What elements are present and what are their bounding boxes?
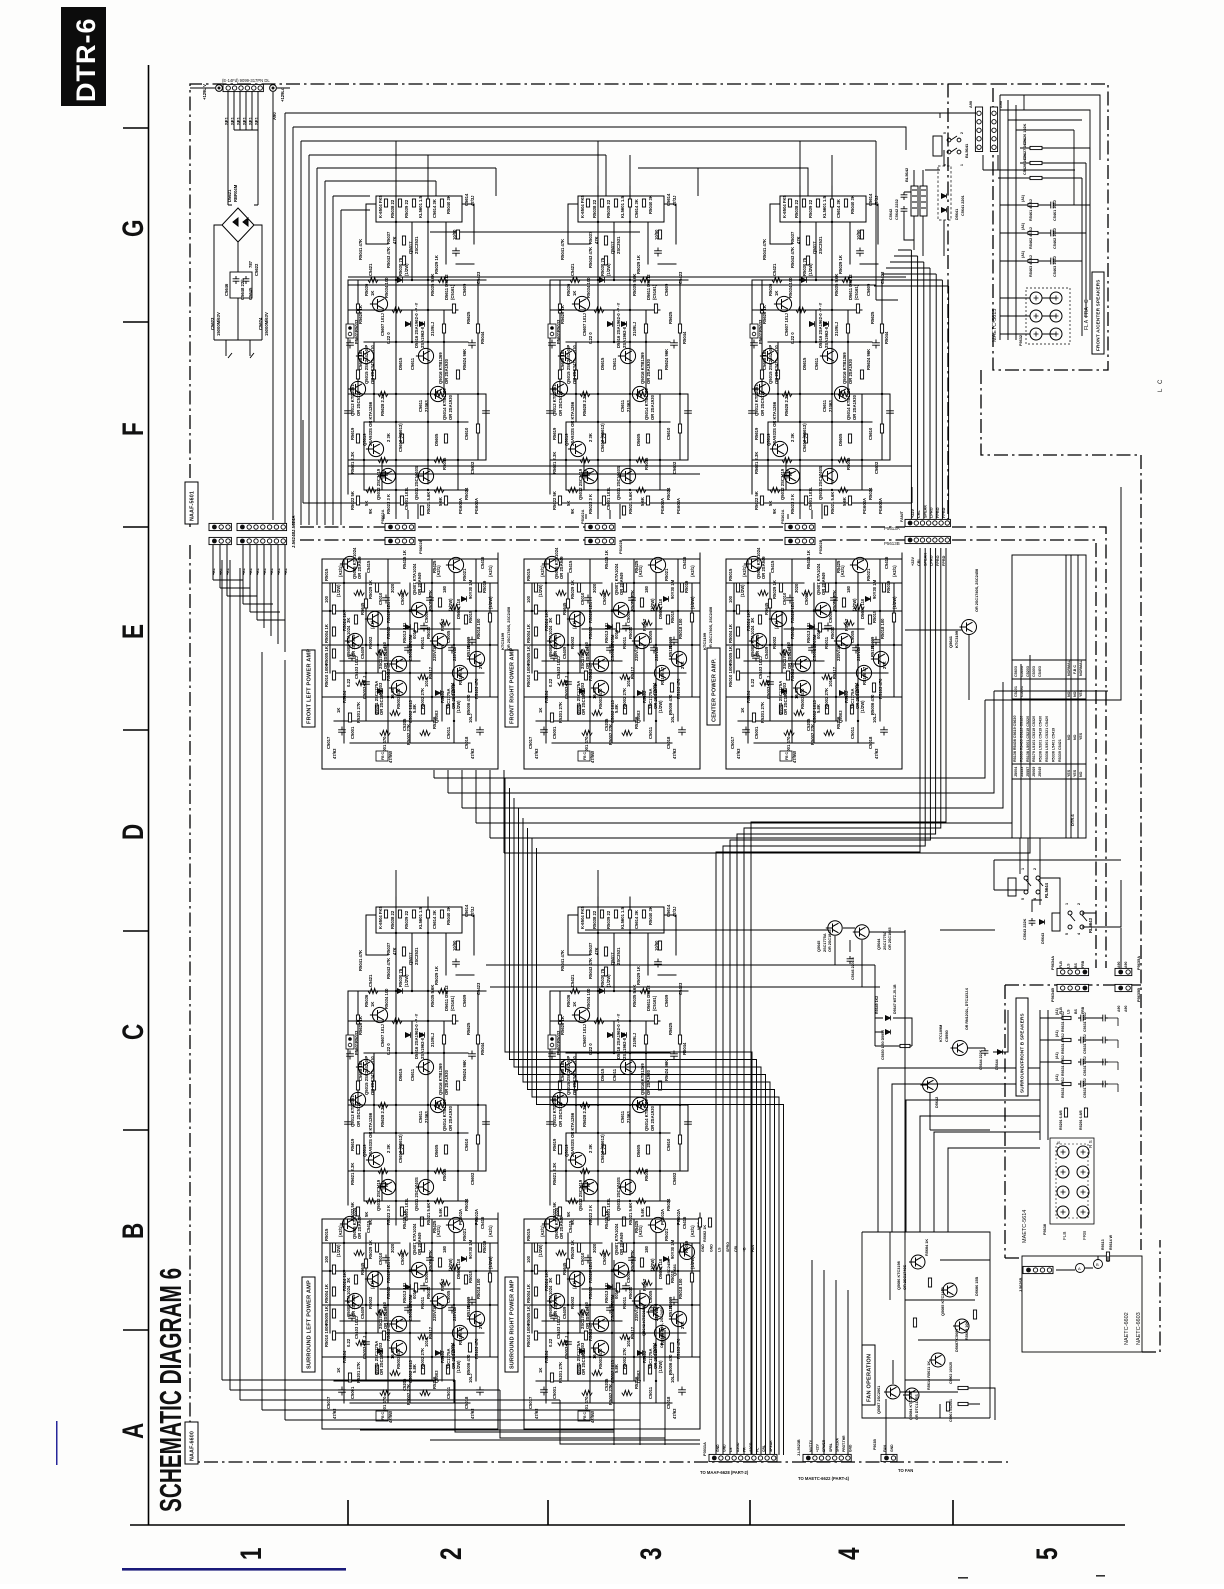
svg-text:OR 2SC1740S: OR 2SC1740S [903, 1264, 907, 1290]
top horizontal bus wires [285, 113, 940, 525]
svg-text:FPRD: FPRD [942, 507, 946, 518]
ruler tick marks [123, 128, 148, 1330]
terminal post B10 [1057, 1166, 1069, 1178]
svg-text:C5648 22/L: C5648 22/L [240, 278, 245, 300]
relay BL5641 [933, 136, 961, 156]
connector P5302B [785, 537, 815, 544]
connector P5102B [585, 537, 615, 544]
svg-text:A90: A90 [272, 112, 277, 120]
svg-text:+129Ld: +129Ld [280, 87, 285, 102]
svg-text:SE1: SE1 [224, 116, 229, 125]
board NAAF-5601 outline [190, 84, 993, 527]
svg-text:R5039 R5439 C5119 C5120: R5039 R5439 C5119 C5120 [1019, 716, 1023, 762]
terminal post B20 [1057, 1186, 1069, 1198]
svg-text:C5103: C5103 [1020, 666, 1024, 677]
fuse C5427 [1030, 161, 1042, 164]
RC network R5461 [1028, 203, 1038, 206]
svg-text:R5684 1K: R5684 1K [925, 1239, 929, 1256]
svg-text:+22V: +22V [911, 509, 915, 518]
svg-text:Q5644: Q5644 [877, 938, 881, 950]
cap C5643 [1029, 918, 1036, 926]
svg-text:(A1): (A1) [1021, 250, 1025, 258]
board NAAF-6600 left/bottom outline [190, 545, 1008, 1462]
svg-text:TO FAN: TO FAN [898, 1468, 913, 1473]
board MAETC-5615 outline [993, 84, 1108, 370]
svg-text:A: A [116, 1423, 150, 1439]
terminal post B30 [1057, 1206, 1069, 1218]
svg-text:2SC1775A: 2SC1775A [883, 931, 887, 950]
terminal post B11 [1077, 1166, 1089, 1178]
svg-text:B: B [116, 1223, 150, 1239]
svg-text:C5650 1/50 D5950: C5650 1/50 D5950 [881, 1030, 885, 1060]
svg-text:B: B [1096, 1262, 1099, 1267]
center bus wires [716, 548, 946, 1455]
resistors R5291 R5292 [1064, 1108, 1067, 1117]
svg-text:R5682 1K: R5682 1K [703, 1225, 707, 1242]
svg-text:P5302B: P5302B [818, 539, 823, 554]
svg-text:2: 2 [434, 1547, 468, 1560]
svg-text:LS: LS [1066, 1009, 1070, 1014]
transistor D5950 group [951, 1041, 968, 1056]
label NAAF-5601 [185, 482, 198, 524]
bottom connector J.L5623B [803, 1454, 851, 1461]
label NAAF-6600 [185, 1422, 198, 1464]
connector P5613B [905, 536, 950, 543]
svg-text:OR 2SC1740S, 2SC2458: OR 2SC1740S, 2SC2458 [709, 607, 713, 650]
svg-text:SPEAK: SPEAK [923, 505, 927, 518]
svg-text:FRONT RIGHT POWER AMP: FRONT RIGHT POWER AMP [509, 648, 515, 724]
bottom grid ruler line [130, 1524, 1125, 1526]
svg-text:R5631 47/3J: R5631 47/3J [1061, 1011, 1065, 1032]
svg-text:R5614 W: R5614 W [1109, 1234, 1113, 1250]
board MAETC-5614 outline [1005, 985, 1141, 1258]
svg-text:G: G [116, 219, 150, 237]
wire stage feed surround [396, 870, 880, 987]
terminal post 1,1 [1050, 310, 1062, 322]
svg-text:D5644: D5644 [995, 1059, 999, 1070]
svg-text:P563B: P563B [873, 1439, 877, 1450]
svg-text:SPEAK: SPEAK [769, 1440, 773, 1452]
svg-text:R5461 47/3J: R5461 47/3J [1029, 199, 1033, 221]
protection circuit Q5681 [678, 1245, 695, 1260]
svg-text:J5069: J5069 [1032, 767, 1036, 777]
svg-text:J5004: J5004 [1014, 766, 1018, 777]
svg-text:OR 2SC1740S, 2SC2458: OR 2SC1740S, 2SC2458 [507, 607, 511, 650]
svg-text:NAETC-6602: NAETC-6602 [1124, 1312, 1130, 1345]
svg-text:C5641 2201: C5641 2201 [961, 195, 965, 216]
svg-text:OR 2SC1740S, 2SC2458: OR 2SC1740S, 2SC2458 [660, 1307, 664, 1348]
svg-text:Q5687 2SC2061: Q5687 2SC2061 [877, 1386, 881, 1414]
svg-text:C5631 103J: C5631 103J [1083, 1012, 1087, 1032]
svg-text:(E-14Fd) 9099-317PN DL: (E-14Fd) 9099-317PN DL [222, 78, 270, 83]
connector P5615B [990, 107, 997, 152]
svg-text:C5646: C5646 [224, 283, 229, 296]
svg-text:NAAF-6600: NAAF-6600 [189, 1431, 195, 1461]
board boundary row lower [300, 540, 1096, 968]
svg-text:Q5686 KTC3198: Q5686 KTC3198 [897, 1261, 901, 1290]
svg-text:+B1: +B1 [242, 568, 246, 575]
svg-text:+22V: +22V [816, 1443, 820, 1452]
svg-text:+22V: +22V [911, 557, 915, 566]
fan transistor Q5687 [884, 1385, 900, 1399]
RC network R5463 [1028, 259, 1038, 262]
svg-text:PROT.THR: PROT.THR [842, 1435, 846, 1452]
svg-text:NORMAL: NORMAL [1079, 659, 1083, 676]
label SURROUND RIGHT POWER AMP [505, 1277, 518, 1372]
fuse C5426 [1030, 146, 1042, 149]
svg-text:2SC1775A: 2SC1775A [823, 933, 827, 952]
svg-text:NORMAL: NORMAL [1067, 659, 1071, 676]
svg-text:FRONT LEFT POWER AMP: FRONT LEFT POWER AMP [307, 649, 313, 724]
RC network R5632 [1062, 1038, 1071, 1041]
svg-text:SE1: SE1 [248, 116, 253, 125]
svg-text:SPRO: SPRO [726, 1242, 730, 1252]
svg-text:C5462 103J: C5462 103J [1053, 228, 1057, 249]
svg-text:A90: A90 [1124, 962, 1128, 968]
svg-text:+129L V: +129L V [202, 84, 207, 100]
board boundary row upper [300, 527, 1106, 968]
stray print mark 1 [958, 1577, 968, 1579]
svg-text:OR 2SC1845: OR 2SC1845 [828, 929, 832, 952]
svg-text:LS: LS [1066, 963, 1070, 968]
speaker terminals FRONT A / CENTER [1026, 288, 1070, 344]
svg-text:+B1: +B1 [270, 568, 274, 575]
connector P5302A [785, 523, 815, 530]
svg-text:+B: +B [743, 1247, 747, 1252]
svg-text:(A1): (A1) [1055, 1074, 1059, 1081]
svg-text:NAAF-5601: NAAF-5601 [189, 491, 195, 521]
svg-text:J.5624B: J.5624B [291, 531, 296, 548]
svg-text:KTC3199: KTC3199 [500, 632, 505, 650]
wires Q5645 area [585, 928, 905, 987]
svg-text:YES: YES [1067, 769, 1071, 777]
middle distribution staircase [505, 778, 784, 1455]
svg-text:NO: NO [1067, 734, 1071, 740]
svg-text:Q5645: Q5645 [817, 941, 821, 952]
blue registration line bottom left [122, 1568, 346, 1571]
svg-text:5: 5 [943, 132, 947, 134]
smoothing caps C5646 C5648 [230, 272, 252, 298]
connector P5102A [585, 523, 615, 530]
svg-text:(A1): (A1) [1055, 1052, 1059, 1059]
svg-text:2: 2 [960, 132, 964, 134]
svg-text:OR DTC114ES: OR DTC114ES [915, 1394, 919, 1420]
terminal post 1,0 [1030, 310, 1042, 322]
front right output stage [547, 186, 692, 515]
svg-text:C5203: C5203 [1026, 666, 1030, 677]
svg-text:FPRO: FPRO [936, 555, 940, 566]
svg-text:4: 4 [1077, 933, 1081, 935]
wires top right [940, 95, 1100, 178]
svg-text:LS: LS [718, 1247, 722, 1252]
wire stage feed [788, 141, 832, 519]
svg-text:C5603: C5603 [1014, 666, 1018, 677]
svg-text:GND: GND [890, 1444, 894, 1452]
surround left power amp circuit [322, 1207, 498, 1429]
fan transistor at 938,1360 [929, 1353, 945, 1367]
label FRONT A/CENTER SPEAKERS [1092, 272, 1104, 354]
svg-text:NAETC-6603: NAETC-6603 [1136, 1312, 1142, 1345]
svg-text:SE1: SE1 [254, 116, 259, 125]
bottom area tie lines [320, 930, 995, 1445]
stray print mark 2 [1096, 1575, 1105, 1577]
svg-text:A2GD: A2GD [736, 1442, 740, 1452]
wires diode cluster [875, 965, 912, 1046]
svg-text:CRL: CRL [734, 1244, 738, 1252]
output feed staircase [434, 487, 1121, 853]
svg-text:R5338 L5301 C5321 C5420: R5338 L5301 C5321 C5420 [1045, 716, 1049, 762]
svg-text:SURROUND RIGHT POWER AMP: SURROUND RIGHT POWER AMP [509, 1279, 515, 1369]
svg-text:R5339 C5421: R5339 C5421 [1058, 739, 1062, 762]
svg-text:J5049: J5049 [1038, 767, 1042, 777]
svg-text:1: 1 [1065, 903, 1069, 905]
svg-text:SE1: SE1 [236, 116, 241, 125]
svg-text:CRL: CRL [917, 558, 921, 566]
svg-text:D5642: D5642 [935, 1097, 939, 1108]
second wire bundle [812, 1260, 848, 1455]
fan transistor at 918,1262 [909, 1255, 925, 1269]
terminal post B31 [1077, 1206, 1089, 1218]
svg-text:CRL: CRL [917, 510, 921, 518]
svg-text:Q5685 KTC3199: Q5685 KTC3199 [941, 1287, 945, 1316]
block NAETC-6602/6603 [1022, 1256, 1142, 1352]
svg-text:GND: GND [716, 1444, 720, 1452]
svg-text:3: 3 [634, 1547, 668, 1560]
svg-text:J.5624A: J.5624A [291, 515, 296, 532]
fan transistor at 962,1326 [953, 1319, 969, 1333]
blue tick left edge [56, 1421, 58, 1465]
svg-text:SURROUND LEFT POWER AMP: SURROUND LEFT POWER AMP [307, 1280, 313, 1369]
label SURROUND LEFT POWER AMP [302, 1277, 315, 1372]
svg-text:CENTER POWER AMP.: CENTER POWER AMP. [712, 658, 718, 722]
svg-text:GND: GND [723, 1444, 727, 1452]
power feed wires [228, 91, 273, 520]
svg-text:BL5641: BL5641 [964, 143, 969, 158]
svg-text:YES: YES [1079, 732, 1083, 740]
svg-text:SURROUND/FRONT B SPEAKERS: SURROUND/FRONT B SPEAKERS [1020, 1013, 1025, 1093]
svg-text:P5613A: P5613A [884, 526, 900, 531]
terminal B [1094, 1260, 1103, 1269]
svg-text:P5634A: P5634A [1050, 956, 1055, 970]
svg-text:LPRO: LPRO [930, 507, 934, 518]
svg-text:D5687 C5687: D5687 C5687 [955, 1329, 959, 1352]
svg-text:+B1: +B1 [212, 568, 216, 575]
svg-text:+B1: +B1 [249, 568, 253, 575]
svg-text:5: 5 [1030, 1547, 1064, 1560]
svg-text:C5303: C5303 [1032, 666, 1036, 677]
inter-stage tie wires [348, 232, 912, 474]
svg-text:R5616 R5611 1K: R5616 R5611 1K [927, 1361, 931, 1390]
center output stage [749, 186, 894, 515]
bottom right board outline [1005, 1240, 1160, 1352]
svg-text:FLB: FLB [1062, 1232, 1067, 1240]
surround right output stage [547, 897, 692, 1226]
svg-text:D5643: D5643 [1041, 933, 1045, 944]
svg-text:NO: NO [1073, 691, 1077, 697]
svg-text:R5138 R5438 C5619 C5630: R5138 R5438 C5619 C5630 [1013, 715, 1017, 762]
svg-text:A: A [1078, 1266, 1081, 1271]
svg-text:1: 1 [234, 1547, 268, 1560]
svg-text:F: F [116, 422, 150, 436]
svg-text:R S: R S [1088, 1140, 1093, 1148]
svg-text:FPRD: FPRD [942, 555, 946, 566]
wire stage feed [586, 141, 630, 519]
svg-text:A90: A90 [1124, 1006, 1128, 1012]
svg-text:TO MAETC-6622 (PART-4): TO MAETC-6622 (PART-4) [798, 1476, 850, 1481]
svg-text:R5689 10K: R5689 10K [965, 1321, 969, 1340]
svg-text:MAETC-5614: MAETC-5614 [1022, 1210, 1028, 1243]
svg-text:R5138 L5001 C5219 C5220: R5138 L5001 C5219 C5220 [1026, 716, 1030, 762]
svg-text:D5647 MTZ.J5.1B: D5647 MTZ.J5.1B [893, 984, 897, 1014]
svg-text:15000M/63V: 15000M/63V [264, 312, 269, 336]
svg-text:OR 2SC1845: OR 2SC1845 [888, 927, 892, 950]
RC network R5634 [1062, 1082, 1071, 1085]
svg-text:BL5642: BL5642 [904, 167, 909, 182]
svg-text:D: D [116, 824, 150, 840]
svg-text:+B1: +B1 [263, 568, 267, 575]
svg-text:1: 1 [960, 164, 964, 166]
svg-text:C5463 103J: C5463 103J [1053, 256, 1057, 277]
terminal post 2,0 [1030, 328, 1042, 340]
surround right power amp circuit [524, 1207, 700, 1429]
connector P5615A [975, 107, 982, 152]
svg-text:C: C [116, 1024, 150, 1040]
connector J5625B [237, 537, 287, 544]
connector P5634A [1057, 968, 1089, 975]
svg-text:(A1): (A1) [1021, 222, 1025, 230]
svg-text:F.B C: F.B C [1073, 665, 1077, 674]
terminal +129Ld right [270, 85, 277, 92]
svg-text:A90: A90 [1117, 1006, 1121, 1012]
svg-text:R5631 47/3J: R5631 47/3J [1061, 1055, 1065, 1076]
connector P5635B [1115, 984, 1132, 991]
svg-text:KTC109M: KTC109M [939, 1025, 943, 1042]
svg-text:R5462 47/3J: R5462 47/3J [1029, 227, 1033, 249]
svg-text:2: 2 [1033, 868, 1037, 870]
svg-text:J.5626B: J.5626B [1019, 1277, 1023, 1292]
svg-text:R5238 L5201 C5419 C5430: R5238 L5201 C5419 C5430 [1039, 716, 1043, 762]
label FRONT RIGHT POWER AMP [505, 650, 518, 727]
svg-text:A90: A90 [969, 101, 973, 108]
svg-text:NO: NO [1079, 771, 1083, 777]
svg-text:C5461 103J: C5461 103J [1053, 200, 1057, 221]
svg-text:4: 4 [832, 1547, 866, 1560]
svg-text:GND: GND [701, 1244, 705, 1252]
svg-text:L S: L S [1056, 1141, 1061, 1148]
svg-text:C5428 102K: C5428 102K [1023, 153, 1027, 175]
terminal post B01 [1077, 1146, 1089, 1158]
svg-text:FLB: FLB [1059, 961, 1063, 968]
svg-text:R5631 47/3J: R5631 47/3J [1061, 1077, 1065, 1098]
svg-text:DTR-6: DTR-6 [71, 18, 101, 103]
svg-text:R5631 47/3J: R5631 47/3J [1061, 1033, 1065, 1054]
RC network R5462 [1028, 231, 1038, 234]
svg-text:R5338 L5401 C5419: R5338 L5401 C5419 [1051, 728, 1055, 762]
label SURROUND/FRONT B SPEAKERS [1016, 998, 1028, 1096]
wire stage feed surround [598, 870, 880, 987]
relay RL5643 [1052, 911, 1087, 931]
svg-text:E: E [116, 624, 150, 639]
svg-text:(A1): (A1) [1055, 1008, 1059, 1015]
svg-text:+B1: +B1 [256, 568, 260, 575]
svg-text:Q5684 KTC1644: Q5684 KTC1644 [909, 1390, 913, 1420]
svg-text:CRL: CRL [762, 1445, 766, 1452]
svg-text:FR: FR [742, 1447, 746, 1452]
svg-text:D5621: D5621 [227, 189, 232, 202]
svg-text:SCHEMATIC DIAGRAM 6: SCHEMATIC DIAGRAM 6 [153, 1268, 188, 1512]
center power amp circuit [726, 547, 902, 769]
svg-text:(A1): (A1) [1055, 1030, 1059, 1037]
fuse C5428 [1030, 176, 1042, 179]
svg-text:C5631 103J: C5631 103J [1083, 1034, 1087, 1054]
svg-text:FL: FL [756, 1448, 760, 1452]
svg-text:C5403: C5403 [1038, 666, 1042, 677]
svg-text:C5301: C5301 [1020, 686, 1024, 697]
svg-text:FL A FRA C: FL A FRA C [1084, 299, 1090, 330]
svg-text:NO: NO [1067, 691, 1071, 697]
diode cluster D5950 [885, 1016, 890, 1021]
svg-text:2SC2458: 2SC2458 [666, 1259, 671, 1276]
svg-text:NO: NO [1073, 734, 1077, 740]
svg-text:R5463 47/3J: R5463 47/3J [1029, 255, 1033, 277]
surround left output stage [345, 897, 490, 1226]
svg-text:A2GD: A2GD [749, 1442, 753, 1452]
svg-text:FRONT A/CENTER SPEAKERS: FRONT A/CENTER SPEAKERS [1096, 279, 1101, 351]
svg-text:P5632: P5632 [1019, 335, 1023, 346]
connector P5613A [905, 519, 950, 526]
protection circuit Q5642 [647, 1305, 664, 1320]
svg-text:1: 1 [1021, 868, 1025, 870]
power section wires [214, 225, 262, 358]
svg-text:R5291 6.8/5: R5291 6.8/5 [1079, 1110, 1083, 1130]
terminal post 2,1 [1050, 328, 1062, 340]
svg-text:RL5644: RL5644 [1044, 882, 1049, 898]
svg-text:(A1): (A1) [1021, 194, 1025, 202]
svg-text:P5635A: P5635A [1136, 956, 1141, 970]
diodes D5641 C5641 [941, 194, 946, 199]
relay wiring [994, 860, 1121, 968]
svg-text:RL5643: RL5643 [1088, 917, 1093, 933]
svg-text:GND: GND [709, 1244, 713, 1252]
svg-text:P3011A: P3011A [702, 1442, 707, 1456]
svg-text:RBR04M: RBR04M [233, 184, 238, 202]
bottom connector P3011A [709, 1454, 777, 1461]
svg-text:J5557: J5557 [1026, 767, 1030, 777]
svg-text:SE1: SE1 [242, 116, 247, 125]
svg-text:C5631 103J: C5631 103J [1083, 1056, 1087, 1076]
svg-text:+B1: +B1 [219, 568, 223, 575]
svg-text:P5634B: P5634B [1050, 988, 1055, 1002]
svg-text:5: 5 [1021, 898, 1025, 900]
speaker terminals SURROUND/FRONT B [1050, 1138, 1094, 1224]
svg-text:P5635B: P5635B [1136, 988, 1141, 1002]
terminal post 0,1 [1050, 292, 1062, 304]
svg-text:R5179 L5101 C5319 C5320: R5179 L5101 C5319 C5320 [1032, 716, 1036, 762]
svg-text:P5602B: P5602B [418, 539, 423, 554]
svg-text:C5643 222K: C5643 222K [1023, 918, 1027, 940]
terminal post 0,0 [1030, 292, 1042, 304]
component application table [1012, 555, 1086, 838]
svg-text:Q5681: Q5681 [672, 1263, 677, 1276]
label FRONT LEFT POWER AMP [302, 650, 315, 727]
svg-text:A90: A90 [1117, 962, 1121, 968]
svg-text:P5602A: P5602A [380, 509, 385, 524]
svg-text:C5646 2201.3: C5646 2201.3 [851, 957, 855, 980]
svg-text:+B1: +B1 [277, 568, 281, 575]
transistor Q5641 [960, 620, 977, 635]
svg-text:SPBL: SPBL [829, 1443, 833, 1452]
svg-text:GND: GND [849, 1444, 853, 1452]
